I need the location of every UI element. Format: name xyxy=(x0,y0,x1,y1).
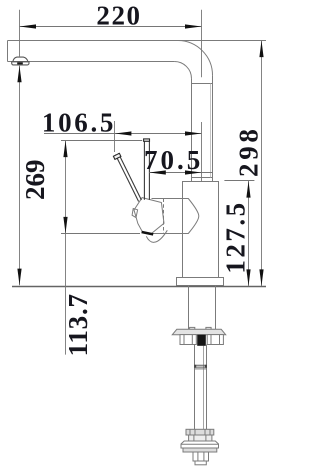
handle pivot pentagon xyxy=(134,198,164,234)
handle swing arc xyxy=(146,230,167,242)
shank left edge xyxy=(188,286,190,330)
coupling dark ticks xyxy=(194,365,196,368)
elbow outer arc xyxy=(178,41,213,76)
pipe joint line upper xyxy=(192,83,213,85)
lever tip extension line xyxy=(114,121,116,152)
arrow 127.5 bottom xyxy=(246,269,250,286)
cylinder inner lines xyxy=(198,452,204,461)
body top extension line xyxy=(224,180,254,182)
svg-text:113.7: 113.7 xyxy=(63,293,93,356)
mounting nut left xyxy=(180,335,196,345)
svg-text:127.5: 127.5 xyxy=(220,200,250,273)
pipe right edge xyxy=(212,75,214,181)
nut right inner lines xyxy=(211,335,220,345)
arrow 113.7 bottom xyxy=(63,217,67,234)
handle joint fragment quad xyxy=(132,209,138,218)
arrow 269 bottom xyxy=(17,269,21,286)
arrow 106.5 left xyxy=(115,131,132,135)
tube coupling lines xyxy=(194,365,207,367)
handle rod cap xyxy=(144,139,150,141)
svg-text:220: 220 xyxy=(96,1,141,31)
pipe inner highlight line xyxy=(210,84,212,178)
dim 298 line xyxy=(261,41,263,287)
bottom fitting knurled ring 1 xyxy=(186,429,214,435)
bottom fitting ring 3 xyxy=(183,448,217,452)
arrow 298 bottom xyxy=(259,269,263,286)
hex nut mid line xyxy=(181,443,219,445)
lever tip cap xyxy=(113,153,121,159)
lever rod line 2 xyxy=(118,153,141,200)
mounting center rod (dark) xyxy=(197,335,206,346)
rod top extension line xyxy=(61,140,142,142)
counter mounting line xyxy=(12,286,266,288)
dim 70.5 line xyxy=(149,172,213,174)
bottom fitting ring 2 xyxy=(189,435,212,441)
pivot bottom extension line xyxy=(61,233,140,235)
dim 113.7 line xyxy=(65,141,67,355)
thread stub left xyxy=(190,327,195,329)
arrow 220 right xyxy=(185,24,202,28)
arrow 127.5 top xyxy=(246,181,250,198)
pivot bottom thick edge xyxy=(142,232,154,234)
svg-text:269: 269 xyxy=(20,160,50,201)
supply tube outer edges xyxy=(195,345,207,430)
dim 106.5 line xyxy=(44,133,202,135)
ring 1 hatches xyxy=(190,429,210,435)
supply tube inner edges xyxy=(203,346,205,430)
washer plate xyxy=(172,329,225,334)
thread stub right xyxy=(206,327,211,329)
collar hidden left edge (dashed) xyxy=(163,199,165,234)
dim 127.5 line xyxy=(248,181,250,286)
arrow 70.5 right xyxy=(185,170,202,174)
left extension line (aerator vertical, upper part) xyxy=(19,10,21,57)
dim 220 line xyxy=(20,26,202,28)
bottom fitting tip xyxy=(195,461,206,465)
lever rod line 1 xyxy=(115,155,138,202)
pipe joint line lower xyxy=(192,177,213,179)
aerator outlet (dark) xyxy=(17,62,23,64)
svg-text:70.5: 70.5 xyxy=(144,145,203,175)
collar band top edge xyxy=(152,198,183,200)
handle rod right edge xyxy=(148,141,150,200)
handle rod left edge xyxy=(143,141,145,200)
collar band bottom edge xyxy=(152,233,183,235)
pipe left edge xyxy=(191,79,193,182)
shank right edge xyxy=(215,286,217,330)
svg-text:298: 298 xyxy=(234,125,264,177)
bottom fitting cylinder xyxy=(193,452,209,461)
arrow 220 left xyxy=(20,24,37,28)
base flange xyxy=(177,278,224,286)
arrow 106.5 right xyxy=(185,131,202,135)
arrow 113.7 top xyxy=(63,141,67,158)
right extension line upper (through elbow) xyxy=(201,10,203,78)
elbow inner arc xyxy=(174,61,191,78)
arrow 298 top xyxy=(259,41,263,58)
arrow 269 top xyxy=(17,66,21,83)
arrow 70.5 left xyxy=(149,170,166,174)
spout top outline line (also 298 extension) xyxy=(8,40,267,42)
dim 269 line xyxy=(19,66,21,286)
coupling lower line xyxy=(194,368,207,370)
valve chamfer shape inside body xyxy=(183,199,199,234)
ring 2 hatches xyxy=(194,435,206,441)
svg-text:106.5: 106.5 xyxy=(42,108,116,138)
aerator dome xyxy=(13,57,28,62)
aerator plate xyxy=(12,62,29,65)
nut left inner lines xyxy=(184,335,192,345)
mounting nut right xyxy=(207,335,223,345)
spout left end cap xyxy=(7,41,9,62)
spout bottom outline line xyxy=(8,61,175,63)
center extension line lower xyxy=(201,122,203,182)
faucet body column xyxy=(183,182,219,278)
bottom fitting hex nut xyxy=(181,441,219,448)
